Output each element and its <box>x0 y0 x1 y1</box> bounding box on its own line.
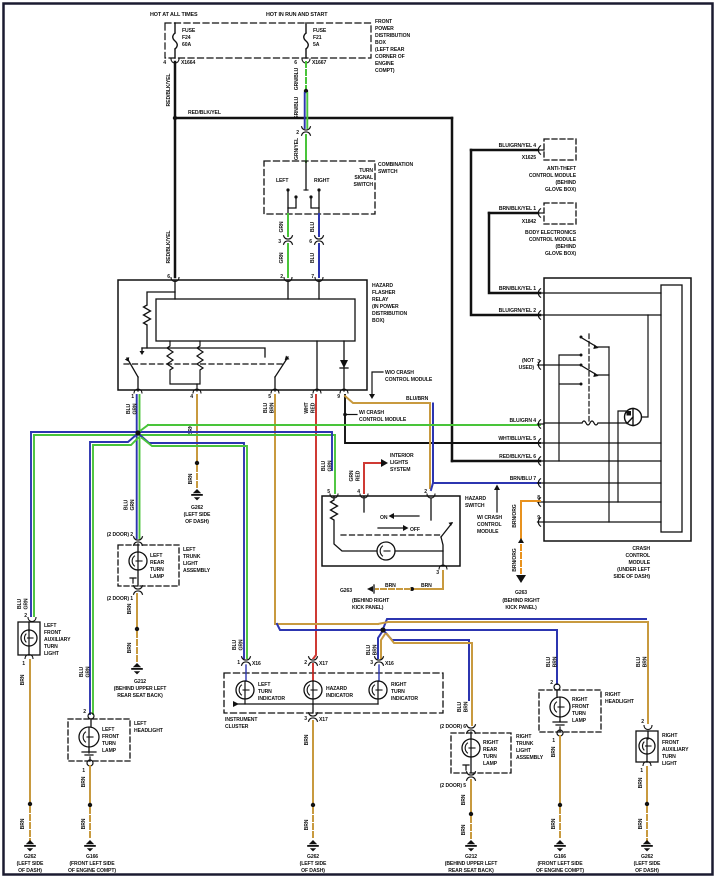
label W/O CRASH CONTROL MODULE pointer <box>372 372 383 395</box>
wire BRN from left headlight <box>89 766 91 803</box>
body electronics control module box <box>544 203 576 224</box>
svg-text:BODY ELECTRONICS: BODY ELECTRONICS <box>525 230 577 236</box>
svg-text:(2 DOOR) 2: (2 DOOR) 2 <box>107 532 133 538</box>
wire RED/BLK/YEL down right side <box>451 118 454 461</box>
svg-text:COMBINATION: COMBINATION <box>378 162 413 168</box>
svg-text:RIGHT: RIGHT <box>391 682 407 688</box>
svg-text:(LEFT SIDE: (LEFT SIDE <box>300 861 327 867</box>
svg-text:W/O CRASH: W/O CRASH <box>385 370 414 376</box>
hazard switch box <box>322 496 460 566</box>
svg-text:BRN: BRN <box>638 818 644 829</box>
left contact <box>286 188 289 191</box>
svg-text:OF DASH): OF DASH) <box>301 868 325 874</box>
crash module internal switch <box>559 355 581 461</box>
svg-text:2: 2 <box>296 130 299 136</box>
svg-text:TURN: TURN <box>359 168 373 174</box>
svg-text:RED/BLK/YEL: RED/BLK/YEL <box>166 231 172 264</box>
wire GRN/BLU pair down <box>304 93 306 128</box>
svg-text:(FRONT LEFT SIDE: (FRONT LEFT SIDE <box>537 861 583 867</box>
svg-text:(NOT: (NOT <box>522 358 535 364</box>
crash module dashed coupler <box>588 334 590 421</box>
svg-text:BRN: BRN <box>188 473 194 484</box>
hazard switch lamp <box>377 542 395 560</box>
svg-text:3: 3 <box>436 570 439 576</box>
svg-text:G166: G166 <box>554 854 566 860</box>
svg-text:MODULE: MODULE <box>477 529 499 535</box>
svg-text:HOT IN RUN AND START: HOT IN RUN AND START <box>266 12 328 18</box>
wire BLU/GRN pair from relay pin 1 <box>136 395 138 430</box>
svg-text:REAR: REAR <box>483 747 497 753</box>
svg-text:FUSE: FUSE <box>182 28 196 34</box>
wire BRN from left trunk <box>136 594 138 627</box>
wire BRN dashed <box>312 808 314 840</box>
svg-text:BRN: BRN <box>464 701 470 712</box>
lamp hazard indicator <box>312 665 314 681</box>
fuse F24 <box>173 23 178 58</box>
svg-text:2: 2 <box>641 719 644 725</box>
svg-text:LAMP: LAMP <box>572 718 587 724</box>
hazard switch pin 3 <box>439 565 447 569</box>
svg-text:GRN: GRN <box>279 252 285 263</box>
svg-text:X16: X16 <box>252 661 261 667</box>
svg-text:9: 9 <box>537 515 540 521</box>
node splice <box>88 803 92 807</box>
svg-text:G262: G262 <box>307 854 319 860</box>
svg-text:BLU: BLU <box>232 639 238 650</box>
svg-text:X17: X17 <box>319 661 328 667</box>
svg-text:2: 2 <box>280 274 283 280</box>
right trunk light assembly box <box>451 733 511 773</box>
svg-text:BOX: BOX <box>375 40 386 46</box>
svg-text:KICK PANEL): KICK PANEL) <box>505 605 537 611</box>
wire GRN/RED to interior lights system <box>364 463 381 493</box>
svg-text:GRN: GRN <box>328 460 334 471</box>
svg-text:BRN/BLK/YEL 1: BRN/BLK/YEL 1 <box>499 206 536 212</box>
svg-text:BLU: BLU <box>126 403 132 414</box>
svg-text:TURN: TURN <box>391 689 405 695</box>
svg-text:LIGHT: LIGHT <box>662 761 678 767</box>
crash module motor symbol <box>625 409 642 426</box>
svg-text:FUSE: FUSE <box>313 28 327 34</box>
svg-text:F24: F24 <box>182 35 191 41</box>
svg-text:LAMP: LAMP <box>102 748 117 754</box>
svg-text:2: 2 <box>550 680 553 686</box>
hazard switch resistor <box>331 497 378 551</box>
crash pin 4 <box>538 420 545 428</box>
svg-text:RIGHT: RIGHT <box>314 178 330 184</box>
connector left trunk top <box>134 537 143 545</box>
svg-text:BRN/ORG: BRN/ORG <box>512 504 518 527</box>
relay pin 2 <box>284 278 292 282</box>
relay left switch <box>127 358 138 377</box>
svg-text:1: 1 <box>237 660 240 666</box>
svg-text:OF DASH): OF DASH) <box>635 868 659 874</box>
svg-text:BLU: BLU <box>366 644 372 655</box>
node main junction <box>135 430 140 435</box>
ground G212 left <box>131 663 143 674</box>
wire BLU right turn <box>318 214 320 236</box>
svg-text:(BEHIND UPPER LEFT: (BEHIND UPPER LEFT <box>114 686 168 692</box>
svg-text:COMPT): COMPT) <box>375 68 395 74</box>
svg-text:WHT: WHT <box>304 401 310 413</box>
wire BRN from hazard pin 3 <box>414 571 443 589</box>
svg-text:FLASHER: FLASHER <box>372 290 396 296</box>
ground G262 far left <box>24 840 36 851</box>
svg-text:BLU/GRN/YEL 4: BLU/GRN/YEL 4 <box>499 143 537 149</box>
svg-text:BRN: BRN <box>81 818 87 829</box>
svg-text:CONTROL: CONTROL <box>626 553 650 559</box>
svg-text:5A: 5A <box>313 42 320 48</box>
svg-text:X1667: X1667 <box>312 60 326 66</box>
svg-text:7: 7 <box>311 274 314 280</box>
left trunk light assembly box <box>118 545 179 586</box>
ground G262 center <box>307 840 319 851</box>
hazard switch pin 2 <box>427 494 435 498</box>
crash pin 8 <box>538 498 545 506</box>
hazard switch pin 4 <box>360 494 368 498</box>
wire BLU/GRN branch to instrument cluster <box>140 435 244 658</box>
svg-text:LAMP: LAMP <box>150 574 165 580</box>
svg-text:TRUNK: TRUNK <box>516 741 534 747</box>
svg-text:BOX): BOX) <box>372 318 385 324</box>
wire BRN dashed <box>89 808 91 840</box>
svg-text:4: 4 <box>357 489 360 495</box>
svg-text:BLU: BLU <box>310 221 316 232</box>
svg-text:BLU: BLU <box>321 460 327 471</box>
right headlight box <box>539 690 601 732</box>
wire GRN left turn <box>287 214 289 236</box>
wire WHT/RED from relay pin 3 <box>313 395 316 680</box>
left front auxiliary turn light box <box>18 622 40 655</box>
svg-text:GRN: GRN <box>239 639 245 650</box>
cluster bottom connector X17 <box>309 713 318 721</box>
fuse F21 <box>304 23 309 58</box>
svg-text:RIGHT: RIGHT <box>662 733 678 739</box>
svg-text:SYSTEM: SYSTEM <box>390 467 410 473</box>
svg-text:LIGHT: LIGHT <box>516 748 532 754</box>
label W/ CRASH CONTROL MODULE pointer <box>343 413 347 417</box>
svg-text:BLU: BLU <box>310 252 316 263</box>
svg-text:BLU: BLU <box>636 656 642 667</box>
svg-text:RIGHT: RIGHT <box>572 697 588 703</box>
svg-text:BRN: BRN <box>127 603 133 614</box>
connector X1664 <box>171 59 179 63</box>
svg-text:ANTI-THEFT: ANTI-THEFT <box>547 166 577 172</box>
svg-text:LIGHTS: LIGHTS <box>390 460 409 466</box>
svg-text:INDICATOR: INDICATOR <box>391 696 418 702</box>
svg-text:X17: X17 <box>319 717 328 723</box>
wire BLU/GRN horizontal main <box>31 431 332 433</box>
ground G262 far right <box>641 840 653 851</box>
svg-text:LEFT: LEFT <box>276 178 289 184</box>
svg-text:FRONT: FRONT <box>44 630 62 636</box>
svg-text:HAZARD: HAZARD <box>465 496 486 502</box>
svg-text:GRN/BLU: GRN/BLU <box>294 96 300 119</box>
svg-text:RELAY: RELAY <box>372 297 389 303</box>
svg-text:(2 DOOR) 5: (2 DOOR) 5 <box>440 783 466 789</box>
svg-text:HAZARD: HAZARD <box>326 686 347 692</box>
svg-text:F21: F21 <box>313 35 322 41</box>
svg-text:6: 6 <box>167 274 170 280</box>
crash pin 6 <box>538 457 545 465</box>
wire BLU branch to right headlight <box>383 630 557 684</box>
relay diode <box>343 341 345 391</box>
wire BRN horizontal from relay pin 5 <box>275 623 378 625</box>
wire RED/BLK/YEL from fuse F24 <box>174 62 177 118</box>
svg-text:BRN: BRN <box>461 824 467 835</box>
svg-text:GRN: GRN <box>130 499 136 510</box>
svg-text:BRN/ORG: BRN/ORG <box>512 548 518 571</box>
svg-text:(IN POWER: (IN POWER <box>372 304 399 310</box>
wire BLU/BRN from relay pin 5 <box>274 395 276 624</box>
hazard pin 4 stub <box>363 497 365 512</box>
instrument cluster box <box>224 673 443 713</box>
wire BLU/GRN far left branch to aux light <box>30 432 32 616</box>
connector X1667 <box>302 59 310 63</box>
wire BRN/BLK/YEL to body electronics module <box>489 212 538 215</box>
svg-text:LAMP: LAMP <box>483 761 498 767</box>
svg-text:LEFT: LEFT <box>183 547 196 553</box>
wire BRN from left aux <box>29 660 31 802</box>
svg-text:RED/BLK/YEL: RED/BLK/YEL <box>166 74 172 107</box>
svg-text:TURN: TURN <box>150 567 164 573</box>
hazard switch coupling dashed <box>341 534 443 536</box>
svg-text:5: 5 <box>268 394 271 400</box>
svg-text:TURN: TURN <box>483 754 497 760</box>
svg-text:LEFT: LEFT <box>134 721 147 727</box>
svg-text:RIGHT: RIGHT <box>516 734 532 740</box>
svg-text:(BEHIND RIGHT: (BEHIND RIGHT <box>352 598 390 604</box>
wire BRN dashed <box>136 632 138 662</box>
node splice <box>410 587 414 591</box>
svg-text:RED/BLK/YEL: RED/BLK/YEL <box>188 110 221 116</box>
wire to relay pin 6 <box>174 118 177 277</box>
svg-text:X1842: X1842 <box>522 219 536 225</box>
wire BLU/GRN/YEL to anti-theft module <box>471 149 538 152</box>
svg-text:OF DASH): OF DASH) <box>185 519 209 525</box>
cluster connector X16 right <box>375 657 384 665</box>
svg-text:9: 9 <box>337 394 340 400</box>
svg-text:INDICATOR: INDICATOR <box>326 693 353 699</box>
svg-text:GRN/BLU: GRN/BLU <box>294 67 300 90</box>
svg-text:HAZARD: HAZARD <box>372 283 393 289</box>
svg-text:SWITCH: SWITCH <box>354 182 374 188</box>
node splice <box>195 461 199 465</box>
svg-text:OFF: OFF <box>410 527 420 533</box>
label W/ CRASH CONTROL MODULE arrow up <box>496 489 498 512</box>
node splice <box>304 89 308 93</box>
svg-text:60A: 60A <box>182 42 191 48</box>
svg-text:LEFT: LEFT <box>44 623 57 629</box>
svg-text:(FRONT LEFT SIDE: (FRONT LEFT SIDE <box>69 861 115 867</box>
svg-text:X16: X16 <box>385 661 394 667</box>
svg-text:BRN/BLU 7: BRN/BLU 7 <box>510 476 537 482</box>
wire GRN/BLU dashed from fuse F21 <box>305 62 307 89</box>
node splice <box>135 627 139 631</box>
right contact <box>317 188 320 191</box>
left headlight box <box>68 719 130 761</box>
svg-text:BRN: BRN <box>385 583 396 589</box>
crash pin 9 <box>538 518 545 526</box>
svg-text:RED/BLK/YEL 6: RED/BLK/YEL 6 <box>499 454 536 460</box>
svg-text:BRN: BRN <box>638 777 644 788</box>
lamp left rear turn lamp <box>137 544 139 586</box>
svg-text:OF DASH): OF DASH) <box>18 868 42 874</box>
svg-text:TURN: TURN <box>102 741 116 747</box>
ground G263 arrow left <box>373 585 375 593</box>
svg-text:REAR: REAR <box>150 560 164 566</box>
svg-text:CONTROL MODULE: CONTROL MODULE <box>359 417 407 423</box>
svg-text:REAR SEAT BACK): REAR SEAT BACK) <box>117 693 163 699</box>
svg-text:GRN: GRN <box>24 598 30 609</box>
crash pin 5 <box>538 439 545 447</box>
wire BLU/BRN branch to right trunk lamp <box>384 631 469 700</box>
svg-text:TURN: TURN <box>572 711 586 717</box>
ground G166 left <box>84 840 96 851</box>
svg-text:(BEHIND: (BEHIND <box>555 244 576 250</box>
svg-text:1: 1 <box>552 738 555 744</box>
svg-text:RED: RED <box>311 402 317 413</box>
wire BLU/GRN down to hazard switch pin 5 <box>331 433 333 470</box>
svg-text:BRN: BRN <box>643 656 649 667</box>
svg-text:GRN/YEL: GRN/YEL <box>294 138 300 160</box>
svg-text:TRUNK: TRUNK <box>183 554 201 560</box>
wire BRN dashed to G263 <box>376 588 410 590</box>
svg-text:2: 2 <box>83 709 86 715</box>
relay pin 6 <box>171 278 179 282</box>
node splice <box>645 802 649 806</box>
svg-text:BLU/GRN/YEL 2: BLU/GRN/YEL 2 <box>499 308 537 314</box>
svg-text:X1664: X1664 <box>181 60 195 66</box>
svg-text:CONTROL: CONTROL <box>477 522 501 528</box>
svg-text:CRASH: CRASH <box>632 546 650 552</box>
hazard switch contact arm <box>430 498 432 520</box>
splice arrow up <box>518 538 524 543</box>
wire BLU horizontal <box>277 624 383 630</box>
svg-text:G262: G262 <box>191 505 203 511</box>
svg-text:USED): USED) <box>519 365 535 371</box>
wire BRN dashed <box>559 808 561 840</box>
svg-text:LEFT: LEFT <box>150 553 163 559</box>
svg-text:BLU: BLU <box>124 499 130 510</box>
svg-text:BRN: BRN <box>461 794 467 805</box>
svg-text:WHT/BLU/YEL 5: WHT/BLU/YEL 5 <box>498 436 536 442</box>
svg-text:RIGHT: RIGHT <box>605 692 621 698</box>
ground G166 right <box>554 840 566 851</box>
hazard switch pin 5 <box>330 494 338 498</box>
relay resistor <box>144 292 176 348</box>
svg-text:BRN: BRN <box>551 818 557 829</box>
svg-text:BLU/GRN 4: BLU/GRN 4 <box>509 418 536 424</box>
svg-text:CONTROL MODULE: CONTROL MODULE <box>385 377 433 383</box>
wire BLU/GRN branch to left headlight <box>90 435 136 714</box>
anti-theft control module box <box>544 139 576 160</box>
cluster connector X17 <box>309 657 318 665</box>
crash pin 7 <box>538 479 545 487</box>
svg-text:MODULE: MODULE <box>629 560 651 566</box>
relay pin 7 <box>315 278 323 282</box>
svg-text:AUXILIARY: AUXILIARY <box>44 637 71 643</box>
svg-text:BRN: BRN <box>553 656 559 667</box>
svg-text:3: 3 <box>278 239 281 245</box>
svg-text:FRONT: FRONT <box>662 740 680 746</box>
svg-text:BRN: BRN <box>20 818 26 829</box>
svg-text:LEFT: LEFT <box>258 682 271 688</box>
svg-text:FRONT: FRONT <box>102 734 120 740</box>
svg-text:FRONT: FRONT <box>375 19 393 25</box>
svg-text:BLU: BLU <box>79 666 85 677</box>
svg-text:BRN: BRN <box>373 644 379 655</box>
relay coupling dashed line <box>124 363 285 365</box>
svg-text:ON: ON <box>380 515 388 521</box>
wire BRN dashed <box>646 807 648 840</box>
svg-text:DISTRIBUTION: DISTRIBUTION <box>375 33 410 39</box>
svg-text:(BEHIND UPPER LEFT: (BEHIND UPPER LEFT <box>445 861 499 867</box>
wire BRN dashed <box>29 807 31 840</box>
svg-text:LIGHT: LIGHT <box>44 651 60 657</box>
lamp left turn indicator <box>245 665 247 681</box>
svg-text:(UNDER LEFT: (UNDER LEFT <box>617 567 651 573</box>
crash control module box <box>544 278 691 541</box>
svg-text:ASSEMBLY: ASSEMBLY <box>516 755 544 761</box>
combination switch box <box>264 161 375 214</box>
svg-text:TURN: TURN <box>44 644 58 650</box>
svg-text:SIGNAL: SIGNAL <box>354 175 373 181</box>
svg-text:5: 5 <box>327 489 330 495</box>
svg-text:W/ CRASH: W/ CRASH <box>359 410 384 416</box>
svg-text:2: 2 <box>424 489 427 495</box>
svg-text:G212: G212 <box>134 679 146 685</box>
svg-text:HEADLIGHT: HEADLIGHT <box>605 699 635 705</box>
ground G262 <box>191 489 203 500</box>
lamp right rear turn lamp <box>470 732 472 772</box>
wire BLU to relay pin 7 <box>318 244 320 277</box>
svg-text:G166: G166 <box>86 854 98 860</box>
svg-text:GRN: GRN <box>133 403 139 414</box>
crash module inner block <box>661 285 682 532</box>
svg-text:BRN: BRN <box>20 674 26 685</box>
svg-text:GRN: GRN <box>349 470 355 481</box>
svg-text:LEFT: LEFT <box>102 727 115 733</box>
wire BRN from cluster <box>312 721 314 803</box>
wire BLU/BRN from relay pin 9 to hazard switch <box>345 396 430 488</box>
svg-text:CONTROL MODULE: CONTROL MODULE <box>529 237 577 243</box>
svg-text:BLU: BLU <box>457 701 463 712</box>
svg-text:G262: G262 <box>24 854 36 860</box>
svg-text:G263: G263 <box>340 588 352 594</box>
svg-text:2: 2 <box>304 660 307 666</box>
wire BLU/GRN/YEL vertical to crash module pin 2 <box>471 150 540 315</box>
wire BRN from right headlight <box>559 736 561 803</box>
svg-text:1: 1 <box>131 394 134 400</box>
svg-text:(LEFT SIDE: (LEFT SIDE <box>184 512 211 518</box>
lamp left front turn lamp <box>89 719 91 751</box>
svg-text:GLOVE BOX): GLOVE BOX) <box>545 187 576 193</box>
svg-text:2: 2 <box>24 613 27 619</box>
node splice <box>28 802 32 806</box>
node junction at fuse wire <box>173 116 177 120</box>
svg-text:BRN/BLK/YEL 1: BRN/BLK/YEL 1 <box>499 286 536 292</box>
wire BRN dashed <box>470 817 472 840</box>
svg-text:BRN: BRN <box>304 734 310 745</box>
wire BRN/ORG dashed <box>520 545 522 573</box>
relay pin 3 internal <box>316 341 318 391</box>
lamp right front aux <box>647 731 648 762</box>
connector right trunk top <box>467 725 476 733</box>
node junction right distribution <box>380 627 385 632</box>
cluster connector X16 left <box>242 657 251 665</box>
right front auxiliary turn light box <box>636 731 658 762</box>
